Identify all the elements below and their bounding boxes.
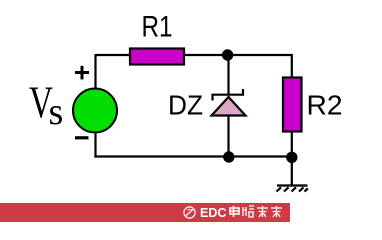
svg-text:s: s — [49, 91, 64, 133]
svg-text:R1: R1 — [142, 11, 173, 44]
svg-text:R2: R2 — [307, 90, 343, 121]
svg-text:EDC: EDC — [200, 206, 226, 220]
svg-text:DZ: DZ — [168, 90, 203, 121]
